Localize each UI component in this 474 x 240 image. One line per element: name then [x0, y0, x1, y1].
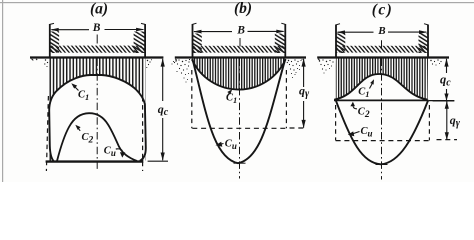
svg-text:B: B — [236, 24, 245, 36]
svg-text:qγ: qγ — [299, 84, 310, 100]
svg-text:qc: qc — [440, 73, 451, 89]
svg-text:C1: C1 — [78, 90, 89, 102]
svg-text:C1: C1 — [226, 93, 237, 105]
svg-text:(a): (a) — [90, 0, 108, 17]
svg-text:(c): (c) — [372, 1, 393, 18]
svg-text:Cu: Cu — [225, 138, 237, 151]
svg-text:B: B — [92, 22, 101, 34]
svg-text:Cu: Cu — [104, 145, 116, 158]
svg-text:qγ: qγ — [450, 113, 461, 129]
svg-text:Cu: Cu — [361, 126, 373, 139]
svg-text:qc: qc — [158, 102, 169, 118]
svg-text:(b): (b) — [234, 0, 252, 17]
svg-text:C2: C2 — [358, 106, 370, 120]
svg-text:C1: C1 — [358, 87, 369, 99]
svg-text:B: B — [377, 25, 385, 37]
